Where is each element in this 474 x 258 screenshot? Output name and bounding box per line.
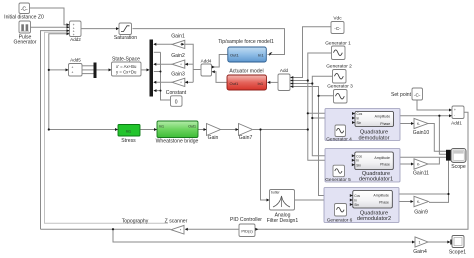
svg-text:0: 0 — [175, 100, 178, 106]
gain Gain11 — [414, 159, 428, 169]
arrow into Gain9 — [411, 200, 414, 203]
svg-text:In1: In1 — [126, 129, 131, 133]
svg-text:butter: butter — [271, 191, 281, 195]
wire bus sin down to demod3 Cos — [319, 96, 353, 196]
source Pulse Generator — [19, 21, 31, 33]
arrow into Add2 in4 — [67, 32, 70, 35]
wire State-Space to big mux bar — [141, 69, 149, 71]
gain Gain3 — [172, 78, 185, 86]
wire topography drop to Gain4 — [113, 229, 415, 242]
gain Gain — [207, 124, 221, 136]
svg-text:Out1: Out1 — [188, 125, 196, 129]
svg-text:Filter Design1: Filter Design1 — [267, 218, 299, 224]
svg-text:Gain: Gain — [208, 135, 219, 141]
wire Vdc to Add input 1 — [291, 27, 332, 78]
wire Add2 to Saturation — [82, 28, 119, 30]
mux small — [94, 63, 97, 79]
arrow into Wheatstone bridge — [154, 128, 157, 131]
wire Gain to Gain7 — [221, 129, 239, 131]
svg-text:Phase: Phase — [380, 122, 390, 126]
wire demod2 Amplitude riser to Scope — [393, 193, 449, 195]
svg-text:Scope1: Scope1 — [449, 250, 466, 256]
svg-text:1: 1 — [419, 241, 421, 245]
wire Gain9 riser to Scope — [429, 161, 449, 203]
svg-text:-C-: -C- — [334, 26, 341, 31]
arrow into blue In1 — [269, 52, 272, 56]
arrow into Add1 in1 — [449, 109, 452, 112]
arrows into demod2 ports — [352, 154, 355, 157]
svg-text:demodulator1: demodulator1 — [359, 177, 393, 183]
wire Generator 5 to demod1 Sin — [346, 165, 355, 171]
source Generator 5 — [333, 165, 345, 177]
arrow into Gain7 — [236, 128, 239, 131]
arrow into bar from Gain3 — [153, 81, 156, 84]
node B-Add5 junction — [48, 69, 50, 71]
svg-text:Vdc: Vdc — [333, 15, 342, 21]
wire Generator 3 to Add input 4 — [291, 87, 334, 96]
svg-text:Add5: Add5 — [70, 58, 81, 63]
svg-text:Generator: Generator — [14, 40, 37, 46]
sum Add1 — [452, 106, 464, 119]
wire Generator 6 to demod2 Sin — [347, 205, 352, 211]
sum Add2 — [70, 21, 82, 37]
arrow into Add2 in2 — [67, 26, 70, 29]
wire Stress to Wheatstone bridge — [141, 129, 157, 131]
wire Generator 4 to demod Sin — [346, 123, 355, 131]
svg-text:Generator 3: Generator 3 — [327, 84, 353, 90]
wire faint feedback left to Add2 — [45, 32, 169, 223]
wire small mux to State-Space — [97, 69, 112, 71]
wire Gain2 output to bar — [154, 63, 172, 65]
svg-text:K-: K- — [417, 122, 420, 126]
wire red model Out1 to Add4 — [212, 72, 227, 83]
wire Add5 to small mux stubs — [82, 65, 94, 67]
svg-text:Actuator model: Actuator model — [229, 69, 263, 75]
source Generator 4 — [335, 125, 346, 137]
node bus in top junction — [307, 128, 309, 130]
svg-text:Gain9: Gain9 — [414, 210, 428, 216]
scope Scope1 body — [452, 236, 464, 248]
arrow into Add2 in1 — [67, 23, 70, 26]
svg-text:Generator 5: Generator 5 — [325, 177, 351, 183]
wire demod2 Phase to Gain9 — [393, 201, 413, 203]
svg-text:In1: In1 — [258, 81, 264, 86]
wire Add4 output to gain bus — [193, 69, 200, 71]
svg-text:Z scanner: Z scanner — [165, 218, 188, 224]
source Generator 1 — [332, 46, 346, 60]
arrow into red In1 — [267, 81, 270, 84]
gain Gain10 — [414, 118, 428, 128]
constant Set point — [412, 88, 423, 100]
arrow into Gain — [204, 128, 207, 131]
arrow into bar from Gain1 — [153, 43, 156, 46]
mux bar large — [150, 40, 154, 97]
arrow into Analog Filter — [267, 199, 270, 202]
gain Gain4 — [415, 237, 428, 247]
svg-text:Sin: Sin — [357, 121, 362, 125]
demod group box 1 — [325, 109, 400, 141]
svg-text:-C-: -C- — [414, 92, 421, 97]
wire blue model Out1 to Add4 — [212, 55, 228, 68]
subsystem Wheatstone bridge — [157, 121, 198, 138]
node constant vertical junction 1 — [160, 71, 162, 73]
svg-text:Amplitude: Amplitude — [375, 114, 391, 118]
wire Gain1 input riser — [185, 44, 194, 82]
svg-text:Gain2: Gain2 — [171, 53, 185, 59]
sum Add4 — [201, 64, 212, 76]
wire demod1 Amplitude to Scope line3 — [394, 156, 447, 158]
svg-text:Saturation: Saturation — [114, 35, 137, 41]
controller PID — [239, 224, 255, 237]
svg-text:Out1: Out1 — [230, 53, 239, 58]
svg-text:Gain7: Gain7 — [239, 135, 253, 141]
wire Set point to Add1 — [417, 101, 451, 111]
arrow into Add2 in3 — [67, 29, 70, 32]
arrow into Add4 in2 — [212, 70, 215, 73]
wire Generator 2 to Add input 3 — [291, 76, 333, 83]
svg-text:Phase: Phase — [380, 162, 390, 166]
wire branch down to Analog Filter — [261, 130, 269, 201]
svg-text:Initial distance Z0: Initial distance Z0 — [4, 15, 44, 21]
svg-text:Gain3: Gain3 — [171, 71, 185, 77]
svg-text:demodulator2: demodulator2 — [357, 216, 391, 222]
wire C1 to Add2 — [29, 8, 69, 25]
wire demod1 Phase to Gain11 — [394, 163, 414, 165]
svg-text:Generator 1: Generator 1 — [325, 40, 351, 46]
subsystem Quadrature demodulator — [355, 112, 394, 127]
svg-text:In: In — [354, 198, 357, 202]
svg-text:Gain10: Gain10 — [413, 130, 430, 136]
arrow into Gain2 — [185, 63, 188, 66]
subsystem Quadrature demodulator2 — [353, 191, 393, 209]
svg-text:Add2: Add2 — [70, 37, 81, 42]
wire Z scanner output to left riser — [41, 228, 171, 230]
svg-text:Gain4: Gain4 — [413, 249, 427, 255]
arrow into Add1 in2 — [449, 114, 452, 117]
arrow into Add in1..4 — [290, 76, 293, 79]
svg-text:PID Controller: PID Controller — [230, 217, 262, 223]
scope Scope body — [451, 148, 466, 162]
arrow into Gain1 — [181, 43, 184, 46]
svg-text:Amplitude: Amplitude — [374, 156, 390, 160]
subsystem Tip/sample force model1 — [228, 47, 266, 62]
wire Saturation to blue model In1 — [133, 29, 285, 55]
svg-text:x' = Ax+Bu: x' = Ax+Bu — [116, 64, 137, 69]
arrow into bar from Gain2 — [153, 63, 156, 66]
wire demod Phase to Gain10 — [394, 123, 413, 125]
svg-text:+: + — [72, 66, 74, 70]
svg-text:Sin: Sin — [354, 203, 359, 207]
source Generator 3 — [334, 90, 348, 104]
wire feedback left B to Add2 input 4 — [49, 34, 117, 130]
svg-text:Gain11: Gain11 — [413, 170, 429, 176]
wire Add5 input from node B — [49, 69, 68, 71]
svg-text:+: + — [454, 108, 456, 112]
svg-text:Out1: Out1 — [230, 81, 239, 86]
subsystem Quadrature demodulator1 — [355, 152, 394, 170]
wire demod Amplitude to Add1 — [394, 115, 451, 117]
sum Add5 — [69, 64, 83, 77]
wire bus in stub demod1 — [312, 117, 354, 119]
wire feedback left A to Add2 input 3 — [41, 31, 70, 230]
demod group box 3 — [324, 188, 399, 223]
gain Z scanner (flipped) — [171, 225, 184, 234]
svg-text:Phase: Phase — [379, 200, 389, 204]
wire Gain3 input stub — [185, 81, 194, 83]
wire bus in down to demod In ports — [308, 81, 355, 161]
wire Gain3 output to bar — [154, 81, 172, 83]
source Generator 2 — [333, 70, 347, 84]
arrow into bar from Constant — [154, 89, 157, 92]
svg-text:In1: In1 — [159, 125, 164, 129]
gain Gain9 — [414, 196, 429, 206]
wire Amplitude branch down to Scope — [439, 116, 446, 155]
svg-text:Stress: Stress — [121, 138, 136, 144]
svg-text:Set point: Set point — [391, 92, 412, 98]
state-space block — [112, 62, 142, 76]
wire Gain7 to demod In bus — [253, 129, 308, 131]
gain Gain1 — [172, 40, 185, 48]
svg-text:Sin: Sin — [356, 163, 361, 167]
sum Add (flipped) — [278, 74, 290, 91]
constant Initial distance Z0 — [19, 3, 30, 14]
svg-text:PID(s): PID(s) — [241, 228, 253, 233]
svg-text:y = Cx+Du: y = Cx+Du — [116, 70, 137, 75]
svg-text:State-Space: State-Space — [112, 57, 140, 63]
svg-text:Tip/sample force model1: Tip/sample force model1 — [218, 39, 274, 45]
subsystem Actuator model — [227, 75, 267, 90]
svg-text:-: - — [454, 113, 455, 117]
wire Wheatstone bridge to Gain — [198, 129, 206, 131]
demod group box 2 — [325, 149, 400, 183]
svg-text:Generator 2: Generator 2 — [326, 64, 352, 70]
svg-text:Add: Add — [280, 68, 289, 73]
svg-text:-C-: -C- — [21, 6, 28, 12]
scope Scope1 nub — [450, 240, 453, 245]
svg-text:In: In — [356, 159, 359, 163]
svg-text:In1: In1 — [258, 53, 264, 58]
svg-text:+: + — [72, 71, 74, 75]
wire Analog Filter to demod2 In — [295, 199, 352, 201]
node constant vertical junction 2 — [160, 90, 162, 92]
wire Add output to red model In1 — [268, 81, 278, 83]
subsystem Stress — [118, 125, 140, 137]
wire Gain2 input stub — [185, 63, 194, 65]
arrow into Z scanner (flipped) — [185, 228, 188, 231]
arrow into Scope1 — [447, 241, 450, 244]
wire bus cos down to demod Cos ports — [312, 84, 354, 156]
svg-text:K-: K- — [417, 163, 420, 167]
arrows into demod3 ports — [350, 194, 353, 197]
source Generator 6 — [335, 204, 347, 217]
arrow into Saturation — [116, 27, 119, 30]
arrow into Add4 in1 — [212, 66, 215, 69]
svg-text:Wheatstone bridge: Wheatstone bridge — [156, 139, 199, 145]
node B-Stress junction — [48, 128, 50, 130]
saturation block — [119, 23, 132, 35]
svg-text:K-: K- — [417, 200, 420, 204]
node amplitude3-riser junction — [447, 193, 449, 195]
wire Pulse Generator to Add2 — [30, 26, 69, 28]
wire Constant to bar via left vertical — [154, 51, 161, 53]
svg-text:Constant: Constant — [166, 90, 187, 96]
svg-text:Generator 6: Generator 6 — [327, 218, 353, 224]
svg-text:Generator 4: Generator 4 — [326, 137, 352, 143]
scope Scope input nub — [446, 150, 451, 161]
arrow into Gain11 — [411, 163, 414, 166]
node bus cos-add junction — [311, 82, 313, 84]
constant block lower — [171, 96, 183, 107]
filter Analog Filter Design1 — [270, 190, 295, 211]
arrow into Gain10 — [411, 122, 414, 125]
svg-text:Add1: Add1 — [451, 121, 462, 126]
node topography junction — [112, 228, 114, 230]
svg-text:Topography: Topography — [122, 218, 149, 224]
arrow into State-Space — [109, 68, 112, 71]
arrow into Gain3 — [185, 81, 188, 84]
svg-text:Amplitude: Amplitude — [373, 193, 389, 197]
wire Gain11 joins Scope bundle — [428, 157, 439, 164]
wire bottom feedback PID to Z scanner — [186, 228, 239, 230]
node amplitude-Add1 junction — [438, 115, 440, 117]
svg-text:demodulator: demodulator — [358, 135, 389, 141]
arrow into Gain4 — [412, 241, 415, 244]
arrow into bar from State-Space — [147, 68, 150, 71]
wire Gain1 output to bar — [154, 43, 172, 45]
arrow into Add5 — [66, 68, 69, 71]
wire Add1 output feedback to PID — [257, 112, 469, 229]
wire Gain4 to Scope1 — [428, 241, 451, 243]
wire bus cos stub demod1 — [308, 112, 355, 114]
wire Generator 1 to Add input 2 — [291, 53, 332, 81]
arrow into PID (flipped) — [255, 228, 258, 231]
svg-text:Add4: Add4 — [201, 59, 212, 64]
wire Gain10 to Scope line1 — [428, 124, 447, 152]
gain Gain2 — [172, 60, 185, 68]
svg-text:In: In — [357, 116, 360, 120]
svg-text:Gain1: Gain1 — [171, 34, 185, 40]
constant Vdc — [331, 22, 344, 34]
gain Gain7 — [239, 124, 253, 136]
svg-text:Scope: Scope — [451, 164, 466, 170]
node Gain7-filter junction — [259, 128, 261, 130]
arrows into demod1 ports — [352, 112, 355, 115]
node bus sin junction — [317, 95, 319, 97]
arrow into Stress — [115, 128, 118, 131]
